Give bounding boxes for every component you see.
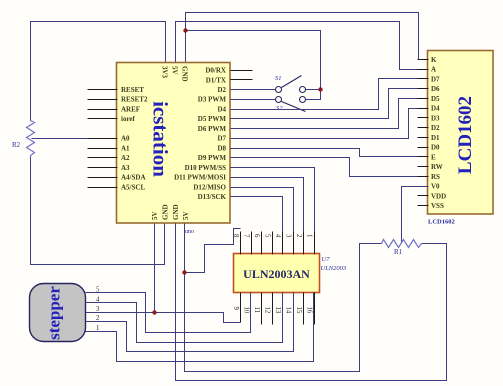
svg-text:A5/SCL: A5/SCL [121,183,145,191]
svg-text:D10 PWM/SS: D10 PWM/SS [185,164,227,172]
svg-text:RESET: RESET [121,86,144,94]
svg-text:GND: GND [162,204,170,220]
wire stepper pin5 to ULN pin10 [86,293,251,333]
driver IC U7 ULN2003AN [234,254,347,293]
svg-text:14: 14 [285,307,292,314]
svg-text:10: 10 [243,307,250,314]
svg-text:D8: D8 [217,144,226,152]
ULN bottom pin stubs [241,293,315,325]
svg-text:5: 5 [264,234,271,238]
svg-text:A1: A1 [121,144,130,152]
svg-text:GND: GND [172,204,180,220]
svg-text:3V3: 3V3 [161,66,169,79]
node junction S1 [318,87,322,91]
svg-text:D9 PWM: D9 PWM [198,154,227,162]
svg-text:15: 15 [295,307,302,314]
svg-text:D12/MISO: D12/MISO [193,183,226,191]
ULN top pin numbers [232,234,313,238]
svg-text:icstation: icstation [149,101,173,177]
svg-text:D4: D4 [431,105,440,113]
wire D8 to LCD E [231,149,429,157]
svg-text:5V: 5V [171,66,179,75]
svg-text:3: 3 [96,306,100,313]
svg-text:AREF: AREF [121,105,140,113]
svg-text:4: 4 [274,234,281,238]
wire GND to LCD K [186,13,429,64]
svg-text:D2: D2 [217,86,226,94]
resistor R2 [12,121,35,158]
svg-text:uno: uno [185,229,194,235]
svg-text:D13/SCK: D13/SCK [198,193,227,201]
wire R2 tap to A0 [32,138,88,140]
wire D9 to LCD RS [231,158,429,177]
ULN top pin stubs 8 7 6 5 [241,232,315,255]
svg-text:D1/TX: D1/TX [206,76,226,84]
wire stepper pin3 to ULN pin9 [86,313,241,323]
svg-text:D3: D3 [431,114,440,122]
svg-text:LCD1602: LCD1602 [428,219,455,226]
svg-text:VSS: VSS [431,202,444,210]
svg-text:ULN2003AN: ULN2003AN [243,267,310,281]
wire D13 to ULN pin4 [231,197,283,255]
wire GND branch to switches [186,31,321,100]
svg-text:D5 PWM: D5 PWM [198,115,227,123]
svg-text:A4/SDA: A4/SDA [121,174,146,182]
wire D5 to LCD D6 [231,89,429,119]
svg-text:5V: 5V [182,211,190,220]
svg-text:D7: D7 [431,75,440,83]
wire D7 to LCD D4 [231,109,429,139]
svg-text:D0: D0 [431,144,440,152]
wire LCD V0 to R1 wiper [402,187,429,244]
icstation left pin stubs [88,90,118,188]
wire D4 to LCD D7 [231,79,429,110]
svg-text:A: A [431,66,436,74]
icstation right pin stubs D0 D1 [231,71,253,80]
wire D3 to S2 [231,99,276,101]
svg-text:16: 16 [306,307,313,314]
node junction 5V stepper [152,310,156,314]
svg-text:D6: D6 [431,85,440,93]
svg-text:D6 PWM: D6 PWM [198,125,227,133]
wire R1 right to GND2 [176,224,447,381]
svg-text:1: 1 [96,325,99,332]
wire D10 to ULN pin1 [231,168,315,255]
svg-text:D4: D4 [217,105,226,113]
svg-text:2: 2 [295,234,302,238]
svg-text:S2: S2 [276,105,283,112]
wire D2 to S1 [231,89,276,91]
svg-text:LCD1602: LCD1602 [455,96,476,174]
svg-text:RESET2: RESET2 [121,96,148,104]
svg-text:RS: RS [431,173,440,181]
svg-text:K: K [431,56,437,64]
svg-text:U7: U7 [322,256,331,263]
svg-text:7: 7 [243,234,250,238]
LCD module LCD1602 [428,51,494,226]
svg-text:3: 3 [285,234,292,238]
svg-text:5V: 5V [151,211,159,220]
svg-text:D7: D7 [217,135,226,143]
svg-text:D1: D1 [431,134,440,142]
svg-text:D11 PWM/MOSI: D11 PWM/MOSI [174,174,226,182]
svg-text:D5: D5 [431,95,440,103]
svg-text:12: 12 [264,307,271,314]
svg-text:D2: D2 [431,124,440,132]
svg-text:A0: A0 [121,135,130,143]
wire S1 right terminal [306,89,321,91]
svg-text:D3 PWM: D3 PWM [198,96,227,104]
ULN bottom pin numbers [232,307,313,314]
wire 5V1 down to stepper pin3 net [154,224,156,313]
wire R2 bottom to GND1 [31,158,165,265]
microcontroller board icstation (uno) [117,63,231,236]
svg-text:A2: A2 [121,154,130,162]
resistor R1 [382,240,422,257]
stepper motor [30,284,86,342]
svg-text:13: 13 [274,307,281,314]
wire ULN pin8 to 5V2 [185,229,241,273]
node junction pin8 [182,270,186,274]
svg-text:S1: S1 [275,75,282,82]
svg-text:V0: V0 [431,183,440,191]
svg-text:ioref: ioref [121,115,136,123]
svg-text:6: 6 [253,234,260,238]
switch S2 [276,97,306,113]
svg-text:9: 9 [232,307,239,311]
switch S1 [275,75,306,93]
wire stepper pin2 to ULN pin14 [86,293,294,352]
LCD pin stubs [418,60,429,206]
wire stepper pin1 to ULN pin16 [86,293,314,362]
svg-text:D0/RX: D0/RX [205,67,226,75]
wire R1 left to 5V2 [185,224,382,372]
svg-text:stepper: stepper [45,286,64,340]
stepper pin numbers [96,287,100,333]
svg-text:GND: GND [181,66,189,82]
svg-text:E: E [431,153,436,161]
wire D6 to LCD D5 [231,99,429,129]
svg-text:VDD: VDD [431,192,446,200]
wire D12 to ULN pin3 [231,188,294,255]
node junction GND branch [183,28,187,32]
wire 3V3 to R2 top [31,22,166,121]
svg-text:11: 11 [253,307,260,314]
wire stepper pin4 to ULN pin13 [86,293,283,343]
svg-text:RW: RW [431,163,443,171]
svg-text:R2: R2 [12,141,21,149]
svg-text:ULN2003: ULN2003 [321,265,347,272]
svg-text:1: 1 [306,234,313,237]
wire 5V to LCD A [176,22,429,70]
svg-text:A3: A3 [121,164,130,172]
svg-text:R1: R1 [394,248,403,256]
wire D11 to ULN pin2 [231,178,304,255]
